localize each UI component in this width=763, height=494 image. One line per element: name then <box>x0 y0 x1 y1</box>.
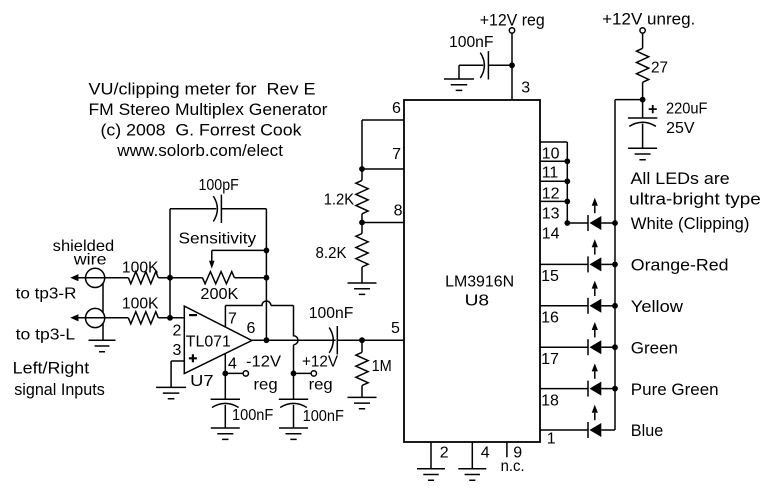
svg-text:15: 15 <box>541 268 559 285</box>
lead R 1.2K bottom <box>361 214 363 223</box>
svg-text:1.2K: 1.2K <box>324 192 355 209</box>
junction rail/LED green <box>612 344 618 350</box>
wire +12V reg to pin 3 <box>511 33 513 100</box>
svg-text:Blue: Blue <box>631 421 663 440</box>
wire cap to ground <box>224 405 226 428</box>
resistor 1M <box>356 352 368 385</box>
svg-text:4: 4 <box>481 444 490 461</box>
terminal +12V unreg <box>640 28 645 33</box>
junction rail/LED orange-red <box>612 262 618 268</box>
shielded wire symbol R (circle) <box>86 268 105 287</box>
LED white/clipping emission arrow <box>592 198 598 206</box>
svg-text:8: 8 <box>394 202 403 219</box>
input arrow tp3-R <box>70 274 78 281</box>
ground op-amp pin3 <box>156 387 186 398</box>
capacitor 100nF IC supply <box>480 53 484 78</box>
svg-text:to tp3-L: to tp3-L <box>16 327 76 344</box>
svg-text:LM3916N: LM3916N <box>445 274 514 291</box>
wire op-amp pin3 to ground <box>171 361 184 387</box>
junction +12V <box>291 371 297 377</box>
junction pin4/-12V <box>222 371 228 377</box>
wire pin 6 to junction <box>362 120 404 169</box>
wire input R <box>74 277 128 279</box>
junction feedback/output <box>264 337 270 343</box>
svg-text:Yellow: Yellow <box>631 297 684 316</box>
svg-text:25V: 25V <box>666 120 695 137</box>
wire pin 1 to LED <box>540 429 588 431</box>
svg-text:200K: 200K <box>200 286 238 303</box>
wire rail top <box>615 99 643 101</box>
plus mark 220uF <box>649 105 657 113</box>
wire 100K-L to op-amp pin 2 <box>158 317 184 319</box>
lead 200K right <box>234 277 266 279</box>
wire 100pF right <box>221 208 266 210</box>
svg-text:100nF: 100nF <box>309 305 354 322</box>
svg-text:Orange-Red: Orange-Red <box>631 256 729 275</box>
svg-text:reg: reg <box>309 376 333 393</box>
input arrow tp3-L <box>70 314 78 321</box>
svg-text:7: 7 <box>392 146 401 163</box>
terminal +12V reg (op-amp) <box>311 371 316 376</box>
lead 1M bottom <box>361 386 363 398</box>
lead R 1.2K top <box>361 169 363 180</box>
junction LED rail <box>640 97 646 103</box>
svg-text:100K: 100K <box>122 260 159 277</box>
wire shield drain <box>102 284 104 341</box>
svg-text:2: 2 <box>173 323 182 340</box>
wire op-amp output <box>252 339 336 341</box>
svg-text:www.solorb.com/elect: www.solorb.com/elect <box>116 141 283 160</box>
shielded wire symbol L (circle) <box>86 308 105 327</box>
svg-text:wire: wire <box>73 252 107 269</box>
ground IC supply cap <box>444 79 474 90</box>
svg-text:+12V reg: +12V reg <box>480 11 545 30</box>
svg-text:16: 16 <box>541 310 559 327</box>
svg-text:13: 13 <box>542 206 560 223</box>
LED green <box>587 339 589 355</box>
svg-text:U8: U8 <box>465 292 490 309</box>
wire pin 8 <box>362 222 404 224</box>
junction pin 11 <box>564 158 570 164</box>
svg-text:1: 1 <box>547 431 556 448</box>
LED blue emission arrow <box>592 405 598 413</box>
wire pin 12 <box>540 180 567 182</box>
svg-text:-12V: -12V <box>246 354 281 371</box>
pot wiper arrow <box>209 261 215 269</box>
wire pin 16 to LED <box>540 305 588 307</box>
wire input L <box>74 317 128 319</box>
svg-text:to tp3-R: to tp3-R <box>16 286 77 303</box>
wire cap to pin3 node <box>488 64 512 66</box>
wire pin 18 to LED <box>540 388 588 390</box>
svg-text:220uF: 220uF <box>666 100 708 117</box>
op-amp minus input mark <box>189 314 197 316</box>
LED blue <box>587 422 589 438</box>
wire cap to ground <box>459 65 483 79</box>
svg-text:6: 6 <box>392 100 401 117</box>
lead 1M top <box>361 340 363 352</box>
svg-text:7: 7 <box>228 310 237 327</box>
svg-text:4: 4 <box>228 355 237 372</box>
junction wiper/feedback <box>264 248 270 254</box>
wire pin 17 to LED <box>540 346 588 348</box>
capacitor 220uF <box>628 117 657 119</box>
lead 200K left <box>170 277 202 279</box>
capacitor 100nF (-12V rail) <box>211 398 240 400</box>
junction pin 14 <box>564 220 570 226</box>
svg-text:17: 17 <box>541 351 559 368</box>
svg-text:FM Stereo Multiplex Generator: FM Stereo Multiplex Generator <box>89 100 328 119</box>
wire op-amp pin4 down <box>224 354 226 374</box>
wire to +12V terminal <box>294 372 312 374</box>
ground 220uF <box>628 148 657 159</box>
svg-text:n.c.: n.c. <box>501 458 525 475</box>
wire pin 14 to LED <box>567 222 588 224</box>
wire pin 9 stub <box>506 442 508 457</box>
svg-text:1M: 1M <box>372 358 392 375</box>
wire op-amp pin7 to +12V <box>225 301 293 327</box>
wire to 220uF <box>642 100 644 118</box>
svg-text:2: 2 <box>440 444 449 461</box>
svg-text:100nF: 100nF <box>232 407 273 424</box>
LED white/clipping <box>587 215 589 231</box>
junction rail/LED white/clipping <box>612 220 618 226</box>
svg-text:Sensitivity: Sensitivity <box>179 231 257 248</box>
ground pin 2 <box>417 469 445 480</box>
wire 100K-R to node <box>158 277 202 279</box>
wire pin 10 <box>540 141 567 143</box>
op-amp U7 TL071 triangle <box>184 306 252 374</box>
svg-text:reg: reg <box>254 376 278 393</box>
resistor 27 <box>637 48 649 82</box>
LED pure green <box>587 381 589 397</box>
potentiometer 200K body <box>202 272 234 284</box>
capacitor 100nF coupling <box>329 328 333 353</box>
wire unreg to R27 <box>642 33 644 48</box>
lead R 8.2K bottom <box>361 267 363 283</box>
ground +12V cap <box>279 428 308 439</box>
wire +12V vertical <box>294 306 299 374</box>
wire pin 2 (bottom) <box>430 442 432 469</box>
svg-text:+12V: +12V <box>302 354 338 371</box>
LED pure green emission arrow <box>592 363 598 371</box>
junction 200K right <box>264 275 270 281</box>
wire LED anode rail <box>614 100 616 430</box>
svg-text:100nF: 100nF <box>303 408 344 425</box>
lead R27 bottom <box>642 82 644 99</box>
svg-text:3: 3 <box>173 342 182 359</box>
wire pin 13 <box>540 200 567 202</box>
wire pin 7 <box>362 168 404 170</box>
ground 1M <box>348 397 377 408</box>
capacitor 100nF (+12V rail) <box>279 398 308 400</box>
svg-text:14: 14 <box>542 226 560 243</box>
svg-text:8.2K: 8.2K <box>316 245 347 262</box>
junction pin 12 <box>564 178 570 184</box>
wire to pin 5 <box>337 339 404 341</box>
resistor 1.2K <box>356 180 368 213</box>
junction 1M <box>359 337 365 343</box>
ground shield <box>89 340 116 351</box>
op-amp plus input mark <box>189 354 197 362</box>
ground pin 4 <box>458 469 486 480</box>
wire pin 4 (bottom) <box>471 442 473 469</box>
svg-text:(c) 2008 G. Forrest Cook: (c) 2008 G. Forrest Cook <box>101 121 303 140</box>
svg-text:All LEDs are: All LEDs are <box>631 169 730 188</box>
svg-text:27: 27 <box>651 60 668 77</box>
svg-text:+12V unreg.: +12V unreg. <box>602 9 695 28</box>
wire wiper to feedback <box>212 250 267 261</box>
resistor 100K L channel <box>128 312 158 324</box>
junction pin8/R8.2K <box>359 220 365 226</box>
wire +12V cap top <box>293 373 295 399</box>
ground -12V cap <box>211 428 240 439</box>
wire pin 11 <box>540 160 567 162</box>
ground below 8.2K <box>348 283 377 294</box>
wire 100pF left <box>170 208 216 210</box>
junction node/pin2 <box>167 315 173 321</box>
svg-text:6: 6 <box>247 320 256 337</box>
svg-text:11: 11 <box>542 164 559 181</box>
wire feedback vertical <box>265 209 267 340</box>
terminal +12V reg (IC) <box>509 28 514 33</box>
svg-text:12: 12 <box>542 186 560 203</box>
capacitor 100pF <box>213 196 217 221</box>
terminal -12V reg <box>243 371 248 376</box>
svg-text:3: 3 <box>521 79 530 96</box>
resistor 8.2K <box>356 234 368 268</box>
resistor 100K R channel <box>128 272 158 284</box>
wire to -12V terminal <box>225 372 243 374</box>
svg-text:18: 18 <box>541 392 559 409</box>
junction rail/LED pure green <box>612 386 618 392</box>
junction rail/LED yellow <box>612 303 618 309</box>
LED orange-red <box>587 256 589 272</box>
LED yellow <box>587 298 589 314</box>
junction node/200K left <box>167 275 173 281</box>
wire summing node vertical <box>169 209 171 318</box>
svg-text:Green: Green <box>631 338 678 357</box>
svg-text:Pure Green: Pure Green <box>631 380 719 399</box>
junction pin3 cap <box>509 62 515 68</box>
wire 220uF to ground <box>642 124 644 149</box>
svg-text:100pF: 100pF <box>199 177 239 194</box>
wire pin4 cap top <box>224 373 226 399</box>
svg-text:10: 10 <box>542 145 560 162</box>
LED orange-red emission arrow <box>592 239 598 247</box>
svg-text:VU/clipping meter for Rev E: VU/clipping meter for Rev E <box>89 80 316 99</box>
LED green emission arrow <box>592 322 598 330</box>
svg-text:White (Clipping): White (Clipping) <box>631 214 750 233</box>
junction pin 13 <box>564 199 570 205</box>
wire pin 15 to LED <box>540 263 588 265</box>
wire +12V cap to ground <box>293 405 295 428</box>
svg-text:100K: 100K <box>122 295 159 312</box>
LED yellow emission arrow <box>592 281 598 289</box>
lead R 8.2K top <box>361 223 363 234</box>
svg-text:TL071: TL071 <box>186 333 231 350</box>
svg-text:ultra-bright type: ultra-bright type <box>629 190 761 209</box>
svg-text:100nF: 100nF <box>449 34 494 51</box>
wire pins 10-14 bus <box>566 142 568 223</box>
IC U8 LM3916N box <box>404 100 540 442</box>
svg-text:5: 5 <box>391 320 400 337</box>
svg-text:signal Inputs: signal Inputs <box>14 380 105 399</box>
junction pin6/pin7/R1.2K <box>359 166 365 172</box>
svg-text:Left/Right: Left/Right <box>13 359 90 378</box>
svg-text:U7: U7 <box>190 373 214 390</box>
